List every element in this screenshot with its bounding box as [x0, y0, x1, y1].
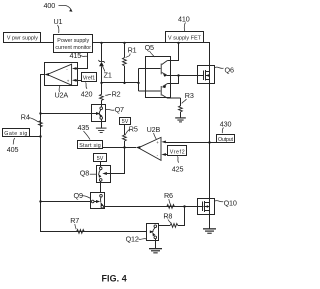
svg-text:R8: R8: [163, 212, 172, 221]
svg-text:Q6: Q6: [225, 65, 234, 74]
wire main top rail: [93, 42, 211, 44]
wire Q9 to Q10 gate: [104, 205, 204, 207]
ground below Q7: [96, 128, 107, 133]
svg-text:Q10: Q10: [224, 198, 237, 207]
MOSFET Q6 box: [198, 66, 215, 84]
svg-text:V pwr supply: V pwr supply: [7, 36, 38, 42]
op-amp U2A triangle: [47, 64, 76, 85]
svg-text:Q9: Q9: [74, 191, 83, 200]
wire Start sig / R5 / Q8 base / U2B output node: [103, 146, 136, 173]
svg-text:Q12: Q12: [126, 235, 139, 244]
resistor R4: [39, 121, 43, 127]
ground below Q10: [203, 228, 216, 234]
wire branch to Q9 base: [41, 201, 92, 203]
zener Z1: [99, 43, 105, 84]
resistor R5: [123, 125, 127, 148]
R7 label: [70, 216, 79, 229]
transistor Q12: [150, 225, 157, 248]
svg-text:5V: 5V: [97, 156, 104, 162]
label 415: [70, 51, 88, 60]
R3 label: [182, 91, 194, 104]
MOSFET Q10 box: [198, 199, 215, 215]
wire monitor output to U2A inverting input: [76, 53, 88, 69]
power supply current monitor U1: [54, 35, 93, 53]
box Start sig: [78, 141, 103, 150]
svg-text:420: 420: [81, 90, 93, 99]
svg-text:R7: R7: [70, 216, 79, 225]
Q12 label: [126, 235, 147, 244]
junction rail/Q5 collector feed: [177, 42, 179, 44]
U2B label: [147, 125, 161, 139]
U2A label: [55, 86, 69, 100]
wire Q5 emitters node to Q6 gate: [167, 74, 198, 83]
svg-text:Q7: Q7: [115, 105, 124, 114]
op-amp U2A box: [45, 63, 78, 86]
svg-text:Z1: Z1: [104, 71, 112, 80]
svg-text:Output: Output: [218, 137, 234, 143]
box Vref2: [166, 146, 187, 156]
wire Gate sig to rail: [30, 136, 41, 138]
wire branch to Q7 base: [41, 113, 93, 115]
R6 label: [164, 191, 173, 204]
resistor R8: [159, 207, 185, 228]
resistor R7: [77, 230, 85, 234]
junction rail/Z1: [100, 42, 102, 44]
Q6 label: [215, 65, 234, 74]
transistor Q9 box: [91, 193, 105, 209]
wire node Z1/R1 to Q5 bases: [100, 82, 139, 84]
svg-text:+: +: [156, 140, 159, 145]
box V pwr supply: [4, 33, 41, 43]
label 400 with arrow: [44, 1, 73, 12]
wire Q5 base tie: [138, 69, 140, 92]
Z1 label: [102, 65, 112, 79]
wire right rail (V supply to Q6, Q10, ground): [209, 43, 211, 229]
svg-text:U1: U1: [54, 17, 63, 26]
label 435: [78, 123, 91, 140]
transistor Q8: [98, 166, 110, 193]
Q5 label: [145, 43, 155, 57]
svg-text:FIG. 4: FIG. 4: [102, 273, 127, 283]
svg-text:R4: R4: [21, 113, 30, 122]
box Output: [217, 135, 235, 144]
svg-text:Start sig: Start sig: [79, 143, 101, 149]
resistor R1: [123, 43, 127, 84]
box 5V (R5 pull-up supply): [120, 118, 131, 126]
R4 label: [21, 113, 39, 122]
label 425: [172, 156, 184, 173]
op-amp U2B triangle: [138, 137, 166, 160]
svg-text:5V: 5V: [122, 119, 129, 125]
svg-text:V supply FET: V supply FET: [168, 35, 202, 41]
box Vref1: [77, 73, 97, 82]
R5 label: [125, 124, 138, 135]
ground below Q12: [149, 248, 162, 253]
Q10 label: [215, 198, 237, 207]
transistor Q8 box: [97, 166, 111, 183]
label 420: [81, 82, 93, 98]
wire U2B + input to output node: [166, 141, 217, 143]
svg-text:415: 415: [70, 51, 82, 60]
op-amp U1 label: [54, 17, 63, 33]
resistor R2: [100, 83, 104, 105]
wire 5V to Q8: [100, 162, 102, 166]
transistor Q7 box: [92, 105, 106, 122]
Q8 label: [80, 169, 97, 178]
svg-text:435: 435: [78, 123, 90, 132]
U2B output arrow: [136, 146, 141, 149]
svg-text:Q8: Q8: [80, 169, 89, 178]
svg-text:U2B: U2B: [147, 125, 161, 134]
transistor Q7: [92, 105, 102, 128]
svg-text:Vref1: Vref1: [83, 76, 95, 82]
resistor R3: [179, 98, 183, 117]
box V supply FET: [166, 32, 204, 43]
R8 label: [163, 212, 172, 224]
svg-text:R2: R2: [112, 89, 121, 98]
Q7 label: [106, 105, 124, 114]
svg-text:430: 430: [220, 120, 232, 129]
wire V pwr supply to monitor: [41, 42, 55, 44]
svg-text:R5: R5: [129, 124, 138, 133]
label 405: [7, 138, 19, 154]
svg-text:R6: R6: [164, 191, 173, 200]
svg-text:U2A: U2A: [55, 91, 69, 100]
resistor R6: [167, 205, 175, 209]
wire V supply FET to Q5 top collector: [167, 43, 178, 61]
transistor Q5 top NPN: [139, 61, 168, 77]
svg-text:R3: R3: [185, 91, 194, 100]
label 410: [178, 15, 190, 32]
svg-text:425: 425: [172, 164, 184, 173]
svg-text:Power supply: Power supply: [57, 38, 89, 44]
MOSFET Q6: [198, 70, 210, 80]
label 430: [220, 120, 232, 134]
transistor Q9: [91, 194, 103, 208]
svg-text:+: +: [67, 78, 70, 83]
svg-text:400: 400: [44, 1, 56, 10]
svg-text:Gate sig: Gate sig: [4, 131, 27, 137]
ground below R3: [175, 117, 186, 122]
svg-text:410: 410: [178, 15, 190, 24]
svg-text:R1: R1: [128, 46, 137, 55]
MOSFET Q10: [203, 201, 210, 212]
box 5V (Q8 supply): [94, 154, 107, 163]
R2 label: [105, 89, 120, 98]
transistor array Q5 box: [146, 57, 171, 98]
box Gate sig: [3, 129, 30, 137]
transistor Q5 bottom PNP: [139, 84, 181, 99]
Q9 label: [74, 191, 91, 200]
R1 label: [126, 46, 137, 58]
svg-text:Vref2: Vref2: [170, 150, 185, 156]
U2A output arrow and wire: [40, 73, 49, 76]
svg-text:405: 405: [7, 145, 19, 154]
svg-text:current monitor: current monitor: [55, 45, 91, 51]
junction rail/R1: [123, 42, 125, 44]
wire U2A output rail down left side: [39, 75, 146, 232]
transistor Q12 box: [147, 224, 159, 241]
svg-text:Q5: Q5: [145, 43, 154, 52]
